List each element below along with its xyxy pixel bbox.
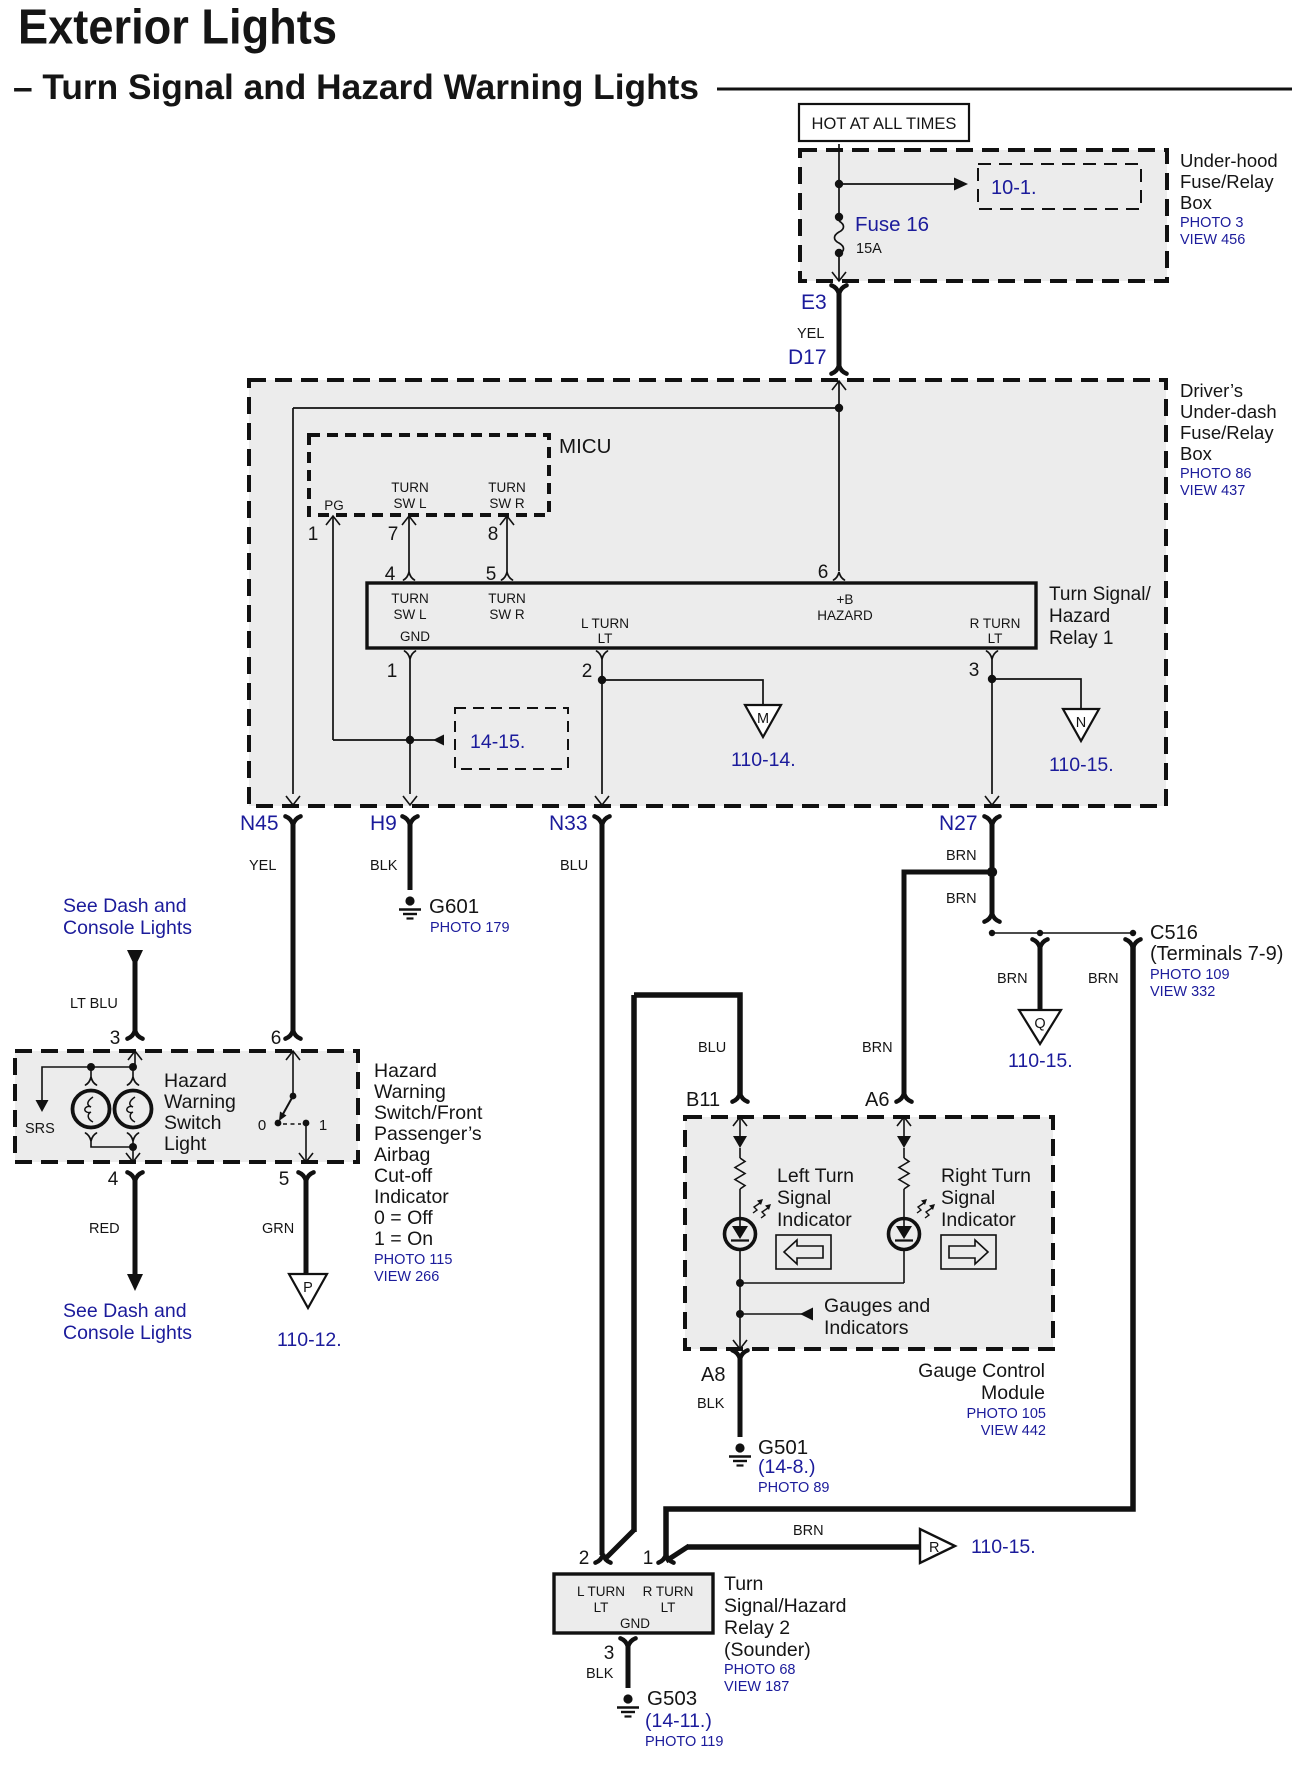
wire PG down xyxy=(332,516,334,740)
wire BRN long right branch xyxy=(666,946,1133,1555)
ground G503 xyxy=(617,1694,639,1716)
node junction N27 xyxy=(987,867,997,877)
wire A8 exit xyxy=(733,1340,747,1349)
svg-text:YEL: YEL xyxy=(797,326,824,342)
svg-text:Fuse 16: Fuse 16 xyxy=(855,213,929,236)
wire D17 into box xyxy=(832,381,846,390)
svg-text:PG: PG xyxy=(324,498,344,513)
node 14-15 dashed box xyxy=(455,708,568,769)
node N destination triangle xyxy=(1063,709,1099,741)
svg-text:P: P xyxy=(303,1280,313,1296)
svg-text:1: 1 xyxy=(308,524,319,545)
switch contacts 0 / 1 xyxy=(275,1120,282,1127)
gauge control module box xyxy=(685,1117,1053,1349)
svg-text:Fuse/Relay: Fuse/Relay xyxy=(1180,422,1274,443)
node junction gauges tap xyxy=(736,1310,744,1318)
svg-text:PHOTO 109: PHOTO 109 xyxy=(1150,967,1230,983)
svg-text:Hazard: Hazard xyxy=(164,1070,227,1092)
node junction +B xyxy=(835,404,843,412)
svg-text:MICU: MICU xyxy=(559,435,611,458)
svg-text:Under-dash: Under-dash xyxy=(1180,401,1277,422)
svg-text:TURN: TURN xyxy=(391,591,429,606)
svg-text:2: 2 xyxy=(579,1548,590,1569)
wire BLU branch to B11 xyxy=(634,995,740,1094)
svg-text:N33: N33 xyxy=(549,812,588,835)
svg-text:2: 2 xyxy=(582,661,593,682)
wire to N triangle xyxy=(992,679,1081,709)
svg-text:Module: Module xyxy=(981,1382,1045,1404)
svg-text:15A: 15A xyxy=(856,241,882,257)
svg-text:TURN: TURN xyxy=(488,591,526,606)
svg-text:4: 4 xyxy=(108,1169,119,1190)
svg-text:Left Turn: Left Turn xyxy=(777,1165,854,1187)
svg-text:G601: G601 xyxy=(429,895,479,918)
MIDWIRES xyxy=(240,812,1283,1555)
svg-text:A8: A8 xyxy=(701,1364,725,1386)
svg-text:PHOTO 86: PHOTO 86 xyxy=(1180,466,1251,482)
wire A6 into box xyxy=(897,1117,911,1126)
connector N45 xyxy=(285,816,300,825)
svg-text:Gauge Control: Gauge Control xyxy=(918,1360,1045,1382)
svg-text:110-15.: 110-15. xyxy=(971,1536,1036,1558)
svg-text:HOT AT ALL TIMES: HOT AT ALL TIMES xyxy=(812,115,957,133)
node junction xyxy=(835,180,843,188)
svg-text:BLK: BLK xyxy=(697,1396,725,1412)
wire BRN branch to A6 xyxy=(904,872,992,1094)
connector N27 xyxy=(984,816,999,825)
lamp bulb 1 xyxy=(90,1067,92,1077)
svg-text:VIEW 332: VIEW 332 xyxy=(1150,984,1215,1000)
wire GRN to P xyxy=(304,1179,309,1274)
svg-text:Right Turn: Right Turn xyxy=(941,1165,1031,1187)
svg-text:BRN: BRN xyxy=(997,971,1028,987)
svg-text:N45: N45 xyxy=(240,812,279,835)
svg-text:Warning: Warning xyxy=(164,1091,236,1113)
TITLE xyxy=(13,1,1292,108)
svg-text:1 = On: 1 = On xyxy=(374,1228,433,1250)
svg-text:Indicator: Indicator xyxy=(374,1186,449,1208)
wire N33 BLU (long) xyxy=(600,823,605,1555)
svg-text:LT: LT xyxy=(988,631,1003,646)
wire C516 rail xyxy=(992,932,1133,934)
connector A8 xyxy=(732,1350,747,1359)
wire contact1 to pin5 xyxy=(305,1123,307,1162)
svg-text:VIEW 266: VIEW 266 xyxy=(374,1269,439,1285)
connector B11 xyxy=(732,1093,747,1102)
connector C516 lower (Q branch) xyxy=(1032,939,1047,948)
wire top rail to SRS xyxy=(42,1067,133,1102)
wire source arrow LT BLU xyxy=(127,950,143,967)
svg-text:VIEW 187: VIEW 187 xyxy=(724,1679,789,1695)
svg-text:BLU: BLU xyxy=(560,858,588,874)
wire to gauges arrow xyxy=(740,1313,802,1315)
driver's under-dash fuse/relay box xyxy=(249,380,1166,806)
svg-text:0: 0 xyxy=(258,1117,266,1134)
svg-text:1: 1 xyxy=(643,1548,654,1569)
GAUGEBOX xyxy=(685,1040,1053,1496)
under-hood fuse/relay box xyxy=(800,150,1167,281)
wire pin6 into box xyxy=(286,1051,300,1060)
svg-text:Fuse/Relay: Fuse/Relay xyxy=(1180,171,1274,192)
svg-text:PHOTO 89: PHOTO 89 xyxy=(758,1480,829,1496)
svg-text:(Terminals 7-9): (Terminals 7-9) xyxy=(1150,943,1283,965)
svg-text:(14-8.): (14-8.) xyxy=(758,1456,815,1478)
connector H9 xyxy=(402,816,417,825)
hazard warning switch light box xyxy=(15,1051,358,1162)
wire diagonal to pin 1 xyxy=(666,1546,689,1561)
svg-text:Q: Q xyxy=(1034,1016,1045,1032)
svg-text:6: 6 xyxy=(271,1028,282,1049)
resistor R1 xyxy=(735,1158,745,1189)
svg-text:110-15.: 110-15. xyxy=(1049,754,1114,776)
svg-text:BRN: BRN xyxy=(1088,971,1119,987)
relay U2 Turn Signal/Hazard Relay 2 xyxy=(554,1574,713,1633)
node junction GND/PG xyxy=(406,736,414,744)
wire BRN to Q xyxy=(1038,946,1043,1010)
svg-text:Gauges and: Gauges and xyxy=(824,1295,930,1317)
node HOT AT ALL TIMES xyxy=(799,104,969,141)
connector N33 xyxy=(594,816,609,825)
wire to 10-1 arrow xyxy=(839,183,956,185)
svg-text:(Sounder): (Sounder) xyxy=(724,1639,811,1661)
light rays xyxy=(917,1203,924,1213)
connector E3 xyxy=(831,285,846,294)
svg-text:PHOTO 179: PHOTO 179 xyxy=(430,920,510,936)
svg-text:Indicator: Indicator xyxy=(777,1209,852,1231)
svg-text:0 = Off: 0 = Off xyxy=(374,1207,433,1229)
svg-text:Relay 2: Relay 2 xyxy=(724,1617,790,1639)
svg-text:G503: G503 xyxy=(647,1687,697,1710)
svg-text:Box: Box xyxy=(1180,192,1213,213)
svg-text:GND: GND xyxy=(620,1616,650,1631)
node junction bulbs bottom xyxy=(129,1143,137,1151)
wire from HOT into box xyxy=(838,144,840,216)
svg-text:BLK: BLK xyxy=(586,1666,614,1682)
svg-text:1: 1 xyxy=(319,1117,327,1134)
svg-text:7: 7 xyxy=(388,524,399,545)
svg-text:Warning: Warning xyxy=(374,1081,446,1103)
wire N45 YEL xyxy=(291,823,296,1032)
svg-text:Passenger’s: Passenger’s xyxy=(374,1123,482,1145)
svg-text:110-12.: 110-12. xyxy=(277,1329,342,1351)
svg-text:N27: N27 xyxy=(939,812,978,835)
wire pin3 into box xyxy=(128,1051,142,1060)
svg-text:110-14.: 110-14. xyxy=(731,749,796,771)
svg-text:Exterior Lights: Exterior Lights xyxy=(18,1,337,55)
BOTTOM xyxy=(554,1523,1036,1750)
svg-text:C516: C516 xyxy=(1150,922,1198,944)
switch SW1 lever xyxy=(290,1093,297,1100)
svg-text:Signal/Hazard: Signal/Hazard xyxy=(724,1595,846,1617)
svg-text:Relay 1: Relay 1 xyxy=(1049,628,1113,649)
svg-text:VIEW 456: VIEW 456 xyxy=(1180,232,1245,248)
svg-text:Switch: Switch xyxy=(164,1112,221,1134)
svg-text:See Dash and: See Dash and xyxy=(63,1300,187,1322)
svg-text:Hazard: Hazard xyxy=(374,1060,437,1082)
DRIVERBOX xyxy=(249,380,1277,806)
svg-text:H9: H9 xyxy=(370,812,397,835)
HAZARDSW xyxy=(15,895,483,1351)
svg-text:5: 5 xyxy=(279,1169,290,1190)
svg-text:+B: +B xyxy=(837,592,854,607)
wire pin3 to N27 xyxy=(991,659,993,794)
wire to N45 leg xyxy=(293,407,839,409)
connector A6 xyxy=(896,1093,911,1102)
LED right turn indicator xyxy=(889,1219,920,1250)
svg-text:R TURN: R TURN xyxy=(970,616,1021,631)
svg-text:Under-hood: Under-hood xyxy=(1180,150,1278,171)
svg-text:B11: B11 xyxy=(686,1089,720,1111)
wire BLK to G501 xyxy=(738,1357,743,1437)
svg-text:VIEW 442: VIEW 442 xyxy=(981,1423,1046,1439)
svg-text:L TURN: L TURN xyxy=(577,1584,625,1599)
svg-text:N: N xyxy=(1076,715,1086,731)
node junction pin3 xyxy=(988,675,996,683)
wire pin2 to N33 xyxy=(601,659,603,794)
wire BRN to R triangle xyxy=(687,1544,920,1550)
node junction pin2 xyxy=(598,676,606,684)
wire diagonal BLU to pin 2 xyxy=(604,1530,634,1560)
svg-text:Light: Light xyxy=(164,1133,207,1155)
wire BLU down leg to relay2 pin2 xyxy=(631,995,637,1532)
svg-text:8: 8 xyxy=(488,524,499,545)
wire fuse to E3 xyxy=(838,253,840,280)
svg-text:Cut-off: Cut-off xyxy=(374,1165,433,1187)
svg-text:Indicators: Indicators xyxy=(824,1317,909,1339)
node R destination triangle xyxy=(920,1529,955,1563)
svg-text:Driver’s: Driver’s xyxy=(1180,380,1243,401)
diode D1 xyxy=(733,1136,747,1148)
svg-text:Signal: Signal xyxy=(777,1187,831,1209)
title rule xyxy=(717,88,1292,91)
svg-text:RED: RED xyxy=(89,1221,120,1237)
svg-text:BLU: BLU xyxy=(698,1040,726,1056)
svg-text:14-15.: 14-15. xyxy=(470,731,525,753)
svg-text:LT: LT xyxy=(661,1600,676,1615)
svg-text:YEL: YEL xyxy=(249,858,276,874)
svg-text:LT: LT xyxy=(598,631,613,646)
svg-text:Switch/Front: Switch/Front xyxy=(374,1102,483,1124)
node junction bulbs top xyxy=(129,1063,137,1071)
wire 7 to 4 xyxy=(408,516,410,572)
icon left arrow box xyxy=(776,1235,831,1269)
svg-text:3: 3 xyxy=(604,1643,615,1664)
wire RED to dash xyxy=(133,1179,138,1277)
svg-text:Airbag: Airbag xyxy=(374,1144,430,1166)
svg-text:R TURN: R TURN xyxy=(643,1584,694,1599)
MICU box xyxy=(309,435,549,515)
svg-text:E3: E3 xyxy=(801,291,827,314)
diode D2 xyxy=(897,1136,911,1148)
svg-text:GRN: GRN xyxy=(262,1221,294,1237)
svg-text:BRN: BRN xyxy=(946,891,977,907)
svg-text:SW R: SW R xyxy=(489,496,524,511)
svg-text:PHOTO 119: PHOTO 119 xyxy=(645,1734,723,1750)
ground G501 xyxy=(729,1443,751,1465)
node 10-1 dashed box xyxy=(978,164,1141,209)
wire pin1 to H9 xyxy=(409,659,411,794)
svg-text:A6: A6 xyxy=(865,1089,889,1111)
node Q destination triangle xyxy=(1019,1010,1061,1044)
svg-text:PHOTO 115: PHOTO 115 xyxy=(374,1252,452,1268)
svg-text:L TURN: L TURN xyxy=(581,616,629,631)
connector D17 xyxy=(831,365,846,374)
wire H9 BLK xyxy=(408,823,413,890)
svg-text:TURN: TURN xyxy=(488,480,526,495)
svg-text:– Turn Signal and Hazard Warni: – Turn Signal and Hazard Warning Lights xyxy=(13,68,699,107)
svg-text:M: M xyxy=(757,711,769,727)
svg-text:Signal: Signal xyxy=(941,1187,995,1209)
svg-text:SW L: SW L xyxy=(393,607,426,622)
wire to M triangle xyxy=(602,680,763,705)
svg-text:D17: D17 xyxy=(788,346,827,369)
wire PG elbow to 14-15 arrow xyxy=(333,739,444,741)
svg-text:SW R: SW R xyxy=(489,607,524,622)
wire B11 into box xyxy=(733,1117,747,1126)
fuse Fuse 16 15A xyxy=(835,213,843,221)
LED left turn indicator xyxy=(725,1219,756,1250)
svg-text:R: R xyxy=(929,1540,939,1556)
svg-text:TURN: TURN xyxy=(391,480,429,495)
connector C516 lower (right branch) xyxy=(1125,939,1140,948)
wire YEL xyxy=(837,292,842,367)
svg-text:BRN: BRN xyxy=(946,848,977,864)
icon right arrow box xyxy=(941,1235,996,1269)
node junction LEDs xyxy=(736,1279,744,1287)
svg-text:See Dash and: See Dash and xyxy=(63,895,187,917)
connector C516 upper half xyxy=(984,913,999,922)
light rays xyxy=(753,1203,760,1213)
svg-text:Box: Box xyxy=(1180,443,1213,464)
svg-text:SRS: SRS xyxy=(25,1121,55,1137)
svg-text:Indicator: Indicator xyxy=(941,1209,1016,1231)
svg-text:(14-11.): (14-11.) xyxy=(645,1710,712,1732)
svg-text:Turn Signal/: Turn Signal/ xyxy=(1049,584,1151,605)
svg-text:VIEW 437: VIEW 437 xyxy=(1180,483,1245,499)
svg-text:LT: LT xyxy=(594,1600,609,1615)
wire 8 to 5 xyxy=(506,516,508,572)
svg-text:PHOTO 68: PHOTO 68 xyxy=(724,1662,795,1678)
relay U1 Turn Signal/Hazard Relay 1 xyxy=(367,583,1036,648)
svg-text:3: 3 xyxy=(969,660,980,681)
svg-text:HAZARD: HAZARD xyxy=(817,608,873,623)
wire N27 BRN xyxy=(990,823,995,914)
svg-text:PHOTO 3: PHOTO 3 xyxy=(1180,215,1243,231)
svg-text:BLK: BLK xyxy=(370,858,398,874)
svg-text:GND: GND xyxy=(400,629,430,644)
wire below LED right xyxy=(903,1248,905,1283)
svg-text:PHOTO 105: PHOTO 105 xyxy=(966,1406,1046,1422)
svg-text:SW L: SW L xyxy=(393,496,426,511)
node SRS arrow xyxy=(36,1100,49,1112)
node M destination triangle xyxy=(745,705,781,737)
svg-text:BRN: BRN xyxy=(862,1040,893,1056)
lamp bulb 2 xyxy=(132,1067,134,1077)
TOPFUSE xyxy=(788,104,1278,374)
wire below LED left xyxy=(739,1248,741,1349)
svg-text:Turn: Turn xyxy=(724,1573,763,1595)
node P destination triangle xyxy=(289,1274,327,1308)
svg-text:Console Lights: Console Lights xyxy=(63,917,192,939)
svg-text:6: 6 xyxy=(818,562,829,583)
svg-text:3: 3 xyxy=(110,1028,121,1049)
resistor R2 xyxy=(899,1158,909,1189)
svg-text:10-1.: 10-1. xyxy=(991,177,1037,199)
wire BLK to G503 xyxy=(626,1645,631,1688)
svg-text:110-15.: 110-15. xyxy=(1008,1050,1073,1072)
svg-text:Console Lights: Console Lights xyxy=(63,1322,192,1344)
svg-text:BRN: BRN xyxy=(793,1523,824,1539)
ground G601 xyxy=(399,896,421,918)
svg-text:1: 1 xyxy=(387,661,398,682)
svg-text:Hazard: Hazard xyxy=(1049,606,1110,627)
svg-text:LT BLU: LT BLU xyxy=(70,996,118,1012)
